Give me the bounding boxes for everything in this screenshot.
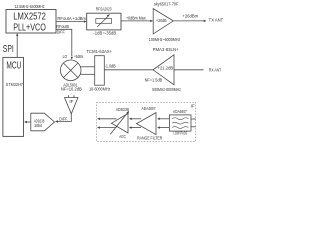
svg-text:-1.0dB: -1.0dB [105,64,116,69]
svg-text:RFoutA +1dBm: RFoutA +1dBm [57,16,86,21]
svg-text:PMA3-83LN+: PMA3-83LN+ [153,47,180,52]
svg-text:TCM1-63AX+: TCM1-63AX+ [87,49,113,54]
svg-text:PLL+VCO: PLL+VCO [13,23,46,34]
svg-text:RX ANT: RX ANT [209,67,222,72]
svg-text:SPI: SPI [3,44,14,55]
svg-text:NF=1.5dB: NF=1.5dB [145,77,163,82]
svg-text:LOW PASS: LOW PASS [173,131,187,136]
svg-text:+21.2dB: +21.2dB [158,66,174,71]
svg-text:RANGE FILTER: RANGE FILTER [137,136,162,141]
svg-text:ADA4807: ADA4807 [142,106,157,111]
svg-text:-1dB~-35dB: -1dB~-35dB [93,31,116,36]
svg-text:500MHz-8000MHz: 500MHz-8000MHz [152,87,181,92]
svg-text:+20dB: +20dB [156,18,167,23]
svg-text:DIFF.: DIFF. [59,117,68,122]
svg-text:+5dBm: +5dBm [74,54,84,59]
svg-text:AGC: AGC [119,134,126,139]
svg-text:12.5MHz-6400MHz: 12.5MHz-6400MHz [15,4,45,9]
svg-text:STM32H7: STM32H7 [6,82,24,87]
svg-text:NF=16.2dB: NF=16.2dB [61,86,82,91]
svg-text:ADA4807: ADA4807 [173,109,187,114]
svg-text:RFoutB: RFoutB [56,24,69,29]
svg-text:IF: IF [191,103,195,108]
svg-text:100MHz~6000MHz: 100MHz~6000MHz [149,37,181,42]
svg-text:RFSA2023: RFSA2023 [96,6,112,11]
svg-text:10-6000MHz: 10-6000MHz [89,87,110,92]
svg-text:IF: IF [69,99,74,104]
svg-text:AD8338: AD8338 [116,107,130,112]
svg-text:MCU: MCU [6,60,21,71]
svg-text:+0dBm Max.: +0dBm Max. [126,16,147,21]
svg-text:DIFF.: DIFF. [57,30,66,35]
svg-text:TX ANT: TX ANT [209,17,224,22]
svg-text:LO: LO [63,54,68,59]
svg-text:+26dBm: +26dBm [182,14,198,19]
svg-text:sky65017-70F: sky65017-70F [154,2,179,7]
svg-text:LMX2572: LMX2572 [13,11,46,22]
svg-text:10bit: 10bit [34,123,43,128]
